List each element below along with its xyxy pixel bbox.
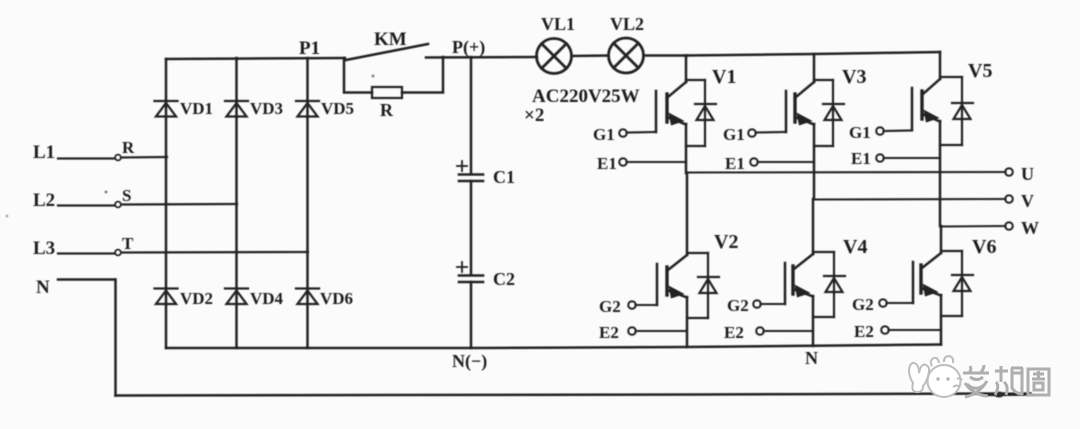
svg-text:V5: V5 bbox=[968, 60, 992, 82]
diode VD6 bbox=[296, 289, 319, 305]
svg-text:E2: E2 bbox=[724, 323, 744, 342]
lamp VL1 bbox=[537, 39, 572, 74]
svg-text:L1: L1 bbox=[33, 142, 55, 163]
svg-text:VD5: VD5 bbox=[321, 99, 354, 118]
svg-text:C1: C1 bbox=[493, 167, 515, 187]
svg-text:VD2: VD2 bbox=[180, 289, 213, 308]
svg-text:KM: KM bbox=[374, 29, 407, 50]
wire bridge leg 3 vertical bbox=[306, 58, 309, 348]
svg-text:V3: V3 bbox=[842, 66, 866, 88]
wire L2 to contact S bbox=[58, 204, 114, 206]
svg-text:VD1: VD1 bbox=[180, 99, 213, 118]
svg-text:E2: E2 bbox=[599, 323, 619, 342]
svg-text:P1: P1 bbox=[299, 38, 320, 59]
wire E1 lead of V3 bbox=[758, 161, 815, 163]
svg-text:L3: L3 bbox=[33, 238, 55, 259]
svg-text:VL1: VL1 bbox=[541, 14, 575, 34]
wire T to bridge leg 3 bbox=[122, 251, 309, 254]
wire L3 to contact T bbox=[58, 252, 114, 254]
contact R bbox=[115, 155, 121, 161]
svg-text:N: N bbox=[36, 277, 50, 298]
svg-text:L2: L2 bbox=[33, 190, 55, 211]
ink blot on N bottom run bbox=[994, 392, 1004, 398]
svg-text:V2: V2 bbox=[714, 231, 738, 253]
wire rectifier top bus P1 bbox=[166, 58, 345, 59]
wire G1 lead of V5 bbox=[884, 129, 913, 132]
wire E2 lead of V6 bbox=[889, 329, 942, 331]
svg-text:G1: G1 bbox=[849, 123, 871, 142]
svg-text:E2: E2 bbox=[854, 322, 874, 341]
svg-text:V: V bbox=[1021, 191, 1034, 211]
svg-text:N(−): N(−) bbox=[452, 351, 487, 372]
capacitor C2 polarity + bbox=[457, 262, 467, 272]
diode VD5 bbox=[296, 101, 319, 117]
wire N bottom run dark smudge bbox=[985, 392, 1030, 396]
wire bridge leg 1 vertical bbox=[165, 59, 168, 348]
svg-text:VD3: VD3 bbox=[250, 99, 283, 118]
scan speck above resistor bbox=[372, 75, 375, 78]
wire N horizontal bbox=[58, 278, 115, 281]
diode VD3 bbox=[225, 101, 248, 117]
wire E2 lead of V4 bbox=[764, 330, 814, 332]
svg-text:AC220V25W: AC220V25W bbox=[532, 86, 640, 107]
IGBT V3 bbox=[786, 54, 814, 199]
wire R bypass right branch bbox=[402, 57, 443, 93]
wire G1 lead of V3 bbox=[756, 131, 787, 134]
wire DC link middle bbox=[470, 181, 473, 275]
svg-text:R: R bbox=[380, 100, 394, 120]
svg-text:G2: G2 bbox=[727, 296, 749, 315]
svg-text:T: T bbox=[122, 234, 134, 253]
wire bridge leg 2 vertical bbox=[235, 58, 238, 348]
wire N bottom run bbox=[116, 394, 1006, 396]
svg-text:E1: E1 bbox=[725, 154, 745, 173]
IGBT V4 bbox=[785, 199, 813, 346]
wire G1 lead of V1 bbox=[627, 131, 657, 134]
wire R to bridge leg 1 bbox=[122, 156, 168, 159]
svg-text:V1: V1 bbox=[712, 66, 736, 88]
svg-text:G1: G1 bbox=[723, 125, 745, 144]
IGBT V6 bbox=[913, 226, 941, 345]
wire KM contact to P(+) bbox=[426, 56, 537, 59]
svg-text:G2: G2 bbox=[599, 297, 621, 316]
terminal U bbox=[1005, 168, 1013, 176]
freewheel diode of V4 bbox=[813, 252, 845, 317]
wire G2 lead of V2 bbox=[636, 304, 658, 306]
wire output U bbox=[687, 171, 1006, 174]
contact S bbox=[115, 202, 121, 208]
lamp VL2 bbox=[609, 38, 644, 73]
wire VL2 to inverter bus bbox=[644, 54, 688, 57]
svg-text:G1: G1 bbox=[593, 125, 615, 144]
capacitor C2 bbox=[459, 276, 483, 283]
svg-text:C2: C2 bbox=[493, 269, 515, 289]
svg-text:VL2: VL2 bbox=[610, 14, 644, 34]
wire DC link lower bbox=[470, 282, 473, 348]
scan speck near S contact bbox=[105, 191, 108, 194]
IGBT V2 bbox=[657, 173, 687, 347]
svg-text:VD4: VD4 bbox=[250, 289, 284, 308]
svg-text:G2: G2 bbox=[852, 295, 874, 314]
svg-text:E1: E1 bbox=[597, 154, 617, 173]
wire N vertical drop bbox=[114, 280, 117, 396]
wire output V bbox=[814, 198, 1006, 201]
svg-text:×2: ×2 bbox=[524, 105, 544, 126]
wire E2 lead of V2 bbox=[636, 330, 688, 332]
wire S to bridge leg 2 bbox=[122, 203, 238, 206]
wire G2 lead of V6 bbox=[887, 302, 914, 304]
terminal V bbox=[1005, 195, 1013, 203]
wire L1 to contact R bbox=[58, 157, 114, 159]
freewheel diode of V1 bbox=[686, 80, 716, 146]
freewheel diode of V2 bbox=[687, 253, 719, 318]
capacitor C1 bbox=[459, 175, 483, 182]
wire DC link upper bbox=[470, 57, 473, 174]
wire output W bbox=[941, 225, 1006, 228]
capacitor C1 polarity + bbox=[457, 161, 467, 171]
svg-text:U: U bbox=[1021, 164, 1034, 184]
svg-text:VD6: VD6 bbox=[320, 289, 353, 308]
svg-text:R: R bbox=[122, 138, 135, 157]
svg-text:P(+): P(+) bbox=[452, 37, 485, 58]
scan speck left margin bbox=[6, 215, 9, 218]
wire E1 lead of V1 bbox=[627, 161, 687, 163]
svg-text:W: W bbox=[1021, 218, 1039, 238]
wire R bypass left branch bbox=[344, 58, 372, 93]
svg-text:S: S bbox=[122, 186, 131, 205]
watermark icon bbox=[909, 356, 962, 397]
diode VD2 bbox=[155, 289, 178, 305]
contactor KM blade bbox=[346, 44, 428, 60]
svg-text:V4: V4 bbox=[843, 236, 867, 258]
freewheel diode of V3 bbox=[814, 80, 844, 146]
wire inverter top bus bbox=[686, 52, 940, 56]
terminal W bbox=[1005, 222, 1013, 230]
diode VD4 bbox=[225, 289, 248, 305]
freewheel diode of V5 bbox=[940, 77, 973, 145]
wire between lamps bbox=[572, 54, 609, 57]
svg-text:V6: V6 bbox=[972, 236, 996, 258]
freewheel diode of V6 bbox=[941, 251, 973, 316]
IGBT V5 bbox=[912, 52, 940, 226]
diode VD1 bbox=[155, 101, 178, 117]
svg-text:N: N bbox=[805, 348, 818, 368]
wire N(-) bottom bus bbox=[166, 345, 941, 349]
resistor R bbox=[372, 87, 402, 98]
IGBT V1 bbox=[656, 56, 686, 174]
watermark text 变频圈 bbox=[963, 365, 1049, 397]
svg-text:E1: E1 bbox=[851, 149, 871, 168]
wire E1 lead of V5 bbox=[884, 157, 941, 159]
contact T bbox=[115, 250, 121, 256]
wire G2 lead of V4 bbox=[761, 303, 786, 305]
